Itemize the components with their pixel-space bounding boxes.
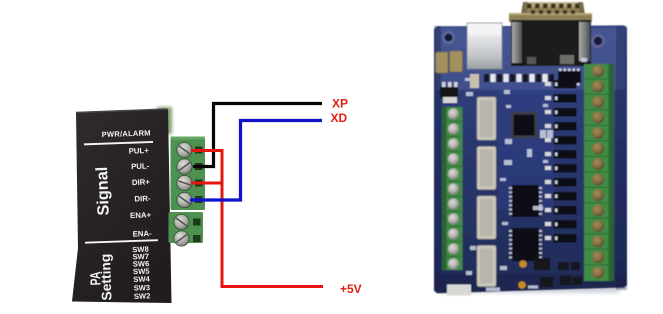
mounting hole top-left bbox=[442, 31, 455, 44]
wire red branch DIR+ bbox=[191, 182, 222, 185]
DB9 screw post left bbox=[512, 22, 522, 63]
DB9 pin row bbox=[527, 4, 580, 15]
JST connector 2 bbox=[477, 147, 496, 190]
svg-text:DIR-: DIR- bbox=[134, 194, 151, 204]
screw DIR- bbox=[177, 192, 192, 207]
connector white bottom-left bbox=[447, 285, 471, 296]
capacitor tan 2 bbox=[450, 51, 463, 72]
terminal block lower (ENA) bbox=[169, 212, 204, 246]
right terminal strip bbox=[584, 64, 614, 281]
screw PUL- bbox=[177, 159, 192, 174]
svg-text:Setting: Setting bbox=[98, 254, 115, 301]
JST connector 4 bbox=[477, 246, 496, 287]
terminal block upper (PUL/DIR) bbox=[171, 137, 206, 211]
screw PUL+ bbox=[177, 142, 192, 157]
resistor row top bbox=[484, 74, 554, 82]
JST connector 1 bbox=[477, 97, 496, 140]
blurred green connector behind driver top-right bbox=[157, 107, 172, 134]
JST connector 3 bbox=[477, 196, 496, 239]
wire red PUL+ to +5V rail bbox=[191, 151, 323, 287]
svg-text:XP: XP bbox=[332, 97, 348, 111]
terminal hole PUL+ bbox=[195, 147, 203, 154]
SOIC IC U3 bbox=[509, 228, 542, 261]
PCB board shadow bbox=[438, 286, 620, 293]
terminal hole ENA- bbox=[193, 235, 201, 242]
svg-text:ENA+: ENA+ bbox=[130, 210, 152, 220]
right strip segment lines bbox=[584, 79, 614, 265]
optocoupler white dots bbox=[555, 83, 558, 241]
regulator U-reg bbox=[442, 82, 446, 88]
svg-text:XD: XD bbox=[331, 111, 348, 125]
svg-text:ENA-: ENA- bbox=[132, 229, 152, 239]
mounting hole top-right bbox=[591, 34, 605, 48]
svg-text:PUL+: PUL+ bbox=[128, 146, 149, 156]
terminal hole PUL- bbox=[195, 163, 203, 170]
svg-text:Signal: Signal bbox=[93, 166, 113, 215]
DB9 connector shell bbox=[521, 2, 585, 15]
screw DIR+ bbox=[177, 175, 192, 190]
QFP IC U1 bbox=[511, 112, 537, 138]
terminal hole DIR- bbox=[195, 196, 203, 203]
terminal hole DIR+ bbox=[195, 180, 203, 187]
left strip segment lines bbox=[442, 122, 463, 257]
driver top edge highlight bbox=[76, 109, 167, 113]
USB-B port bbox=[467, 23, 502, 69]
DB9 screw post right bbox=[579, 22, 590, 61]
silkscreen specks bbox=[465, 58, 587, 291]
wire black PUL- to XP bbox=[193, 104, 322, 167]
IC small top (74HC14) bbox=[558, 71, 581, 83]
terminal hole ENA+ bbox=[193, 219, 201, 226]
DB9 black body bbox=[511, 20, 591, 66]
optocoupler column bbox=[554, 80, 577, 243]
svg-text:SW2: SW2 bbox=[134, 291, 151, 301]
component light chip top bbox=[470, 74, 479, 88]
PCB board bbox=[434, 25, 627, 293]
left terminal strip bbox=[442, 107, 463, 270]
screw ENA+ bbox=[174, 214, 189, 229]
SOIC IC U2 bbox=[509, 185, 542, 217]
screw ENA- bbox=[174, 231, 189, 246]
capacitor tan 1 bbox=[436, 52, 449, 73]
separator line 1 bbox=[84, 141, 153, 145]
bottom components bbox=[534, 258, 550, 270]
separator line 2 bbox=[85, 239, 158, 243]
DB9 body center bbox=[524, 20, 577, 66]
svg-text:PUL-: PUL- bbox=[131, 161, 150, 171]
wire blue DIR- to XD bbox=[190, 121, 322, 201]
resistor minis column bbox=[545, 82, 551, 240]
svg-text:DIR+: DIR+ bbox=[132, 177, 151, 187]
svg-text:PWR/ALARM: PWR/ALARM bbox=[102, 128, 151, 139]
svg-text:+5V: +5V bbox=[340, 282, 362, 296]
driver body bbox=[72, 109, 172, 303]
